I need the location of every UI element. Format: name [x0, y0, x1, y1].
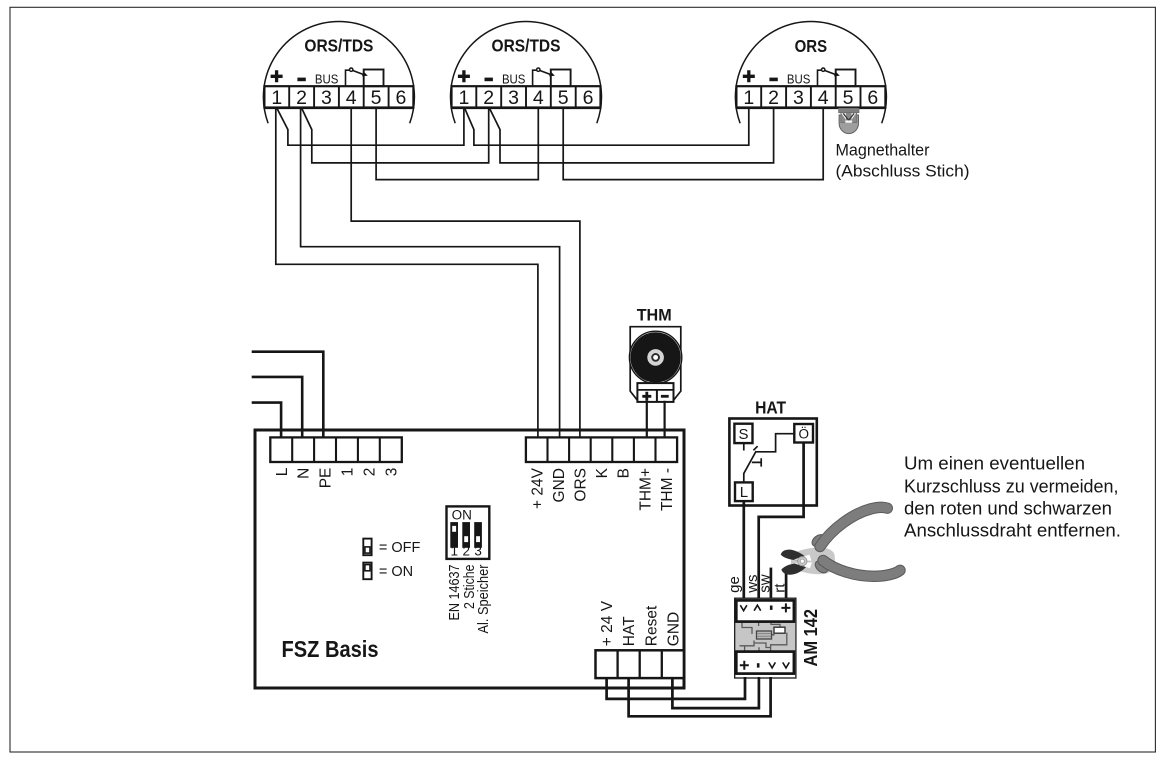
magnet holder (Magnethalter) on D3 pin 5	[839, 108, 859, 133]
svg-text:= ON: = ON	[379, 564, 413, 580]
svg-text:S: S	[738, 426, 748, 443]
svg-text:ORS: ORS	[573, 468, 590, 502]
svg-text:THM: THM	[637, 307, 672, 325]
svg-text:B: B	[616, 468, 633, 478]
wire: THM- to FSZ	[663, 401, 665, 438]
detector D3 ORS dome	[735, 21, 886, 123]
wire: HAT L to AM142 (ge)	[742, 501, 745, 598]
wire: HAT O to AM142 (ws)	[759, 443, 804, 599]
svg-text:4: 4	[818, 87, 829, 109]
detector D1 minus label	[297, 78, 305, 82]
wire: FSZ GND to AM142 -	[672, 677, 759, 708]
HAT terminal S	[734, 424, 752, 443]
FSZ mains terminal strip L N PE 1 2 3	[270, 437, 402, 488]
wire: mains feed to N	[252, 377, 303, 438]
wire: cut red lead (rt)	[785, 571, 788, 599]
FSZ detector terminal strip +24V GND ORS K B THM+ THM-	[526, 437, 677, 511]
side cutter pliers white cutting edges	[794, 555, 812, 561]
svg-text:L: L	[274, 467, 291, 476]
detector D1 alarm relay contact	[346, 68, 384, 86]
side cutter pliers lower handle	[813, 558, 900, 576]
side cutter pliers upper jaw	[781, 550, 806, 561]
wire: bus line A first span D1.1 to D2.1	[277, 108, 464, 146]
svg-text:6: 6	[867, 87, 878, 109]
svg-text:Um einen eventuellen: Um einen eventuellen	[904, 454, 1085, 474]
HAT terminal O (Oeffner)	[794, 424, 813, 443]
svg-text:6: 6	[395, 87, 406, 109]
svg-text:ORS: ORS	[795, 36, 828, 56]
detector D2 plus label	[458, 70, 470, 82]
detector D2 terminal strip pins 1-6	[451, 86, 601, 109]
AM 142 module body	[735, 598, 796, 678]
svg-text:4: 4	[533, 87, 544, 109]
svg-text:Reset: Reset	[643, 605, 660, 646]
svg-text:Al. Speicher: Al. Speicher	[475, 564, 492, 633]
svg-text:den roten und schwarzen: den roten und schwarzen	[904, 498, 1112, 518]
svg-text:Magnethalter: Magnethalter	[836, 140, 930, 159]
detector D2 alarm relay contact	[533, 68, 571, 86]
detector D2 ORS/TDS dome	[451, 21, 602, 123]
detector D2 minus label	[485, 78, 493, 82]
svg-text:3: 3	[793, 87, 804, 109]
svg-text:THM+: THM+	[637, 468, 654, 511]
svg-text:2: 2	[361, 468, 378, 477]
wire: relay chain D2.5 to D3.4	[563, 108, 823, 180]
AM 142 upper terminal row	[736, 600, 794, 621]
svg-text:FSZ Basis: FSZ Basis	[282, 636, 379, 662]
wire: D1.1 to FSZ +24V terminal	[276, 108, 538, 438]
wire: D1.2 to FSZ GND terminal	[301, 108, 560, 438]
DIP legend ON icon	[363, 563, 371, 580]
svg-text:5: 5	[371, 87, 382, 109]
svg-text:2: 2	[483, 87, 494, 109]
detector D3 alarm relay contact	[818, 68, 856, 86]
wire: FSZ +24V to AM142 +	[607, 677, 745, 699]
HAT enclosure box	[729, 419, 816, 506]
side cutter pliers lower jaw	[781, 563, 806, 575]
DIP legend OFF icon	[363, 539, 371, 556]
wire: mains feed to PE	[252, 352, 324, 438]
svg-text:ORS/TDS: ORS/TDS	[304, 35, 373, 55]
svg-text:HAT: HAT	[755, 397, 786, 417]
svg-text:Kurzschluss zu vermeiden,: Kurzschluss zu vermeiden,	[904, 476, 1119, 496]
wire: THM+ to FSZ	[646, 401, 648, 438]
wire: mains feed to L	[252, 403, 281, 438]
svg-text:GND: GND	[551, 468, 568, 502]
svg-text:PE: PE	[318, 468, 335, 489]
svg-text:5: 5	[558, 87, 569, 109]
wire: bus line B first span D1.2 to D2.2	[301, 108, 488, 163]
svg-text:ON: ON	[452, 508, 472, 523]
svg-text:4: 4	[346, 87, 357, 109]
wire: relay chain D1.5 to D2.4	[376, 108, 538, 180]
THM terminal box + -	[637, 383, 673, 402]
svg-text:GND: GND	[665, 612, 682, 646]
svg-text:AM 142: AM 142	[801, 609, 821, 667]
side cutter pliers upper handle	[810, 507, 887, 548]
svg-text:3: 3	[321, 87, 332, 109]
detector D3 minus label	[769, 78, 777, 82]
svg-text:rt: rt	[772, 583, 789, 593]
svg-text:1: 1	[458, 87, 469, 109]
wire: cut black lead (sw)	[770, 568, 773, 599]
svg-text:1: 1	[743, 87, 754, 109]
detector D3 terminal strip pins 1-6	[736, 86, 886, 109]
svg-text:6: 6	[583, 87, 594, 109]
wire: bus line B second span D2.2 to D3.2	[489, 108, 773, 163]
svg-text:1: 1	[450, 543, 458, 558]
wire: D1.4 to FSZ ORS terminal	[351, 108, 580, 438]
HAT terminal L	[735, 482, 753, 501]
side cutter pliers pivot	[798, 557, 807, 566]
svg-text:+ 24 V: + 24 V	[599, 600, 616, 646]
svg-text:3: 3	[383, 468, 400, 477]
svg-text:(Abschluss Stich): (Abschluss Stich)	[836, 162, 970, 181]
THM sounder body	[629, 327, 681, 402]
svg-text:N: N	[296, 468, 313, 479]
svg-text:1: 1	[271, 87, 282, 109]
svg-text:2: 2	[462, 543, 470, 558]
svg-text:5: 5	[843, 87, 854, 109]
DIP switch block S1	[447, 506, 490, 559]
wire: FSZ HAT to AM142	[629, 677, 771, 716]
AM 142 lower terminal row	[736, 652, 794, 674]
svg-text:= OFF: = OFF	[379, 540, 421, 556]
svg-text:Ö: Ö	[798, 426, 809, 441]
HAT changeover contact	[744, 434, 795, 483]
detector D1 terminal strip pins 1-6	[264, 86, 414, 109]
svg-text:L: L	[740, 484, 748, 501]
instruction text block	[904, 454, 1121, 541]
svg-text:3: 3	[508, 87, 519, 109]
svg-text:BUS: BUS	[315, 72, 339, 87]
svg-text:2: 2	[768, 87, 779, 109]
detector D1 ORS/TDS dome	[263, 21, 414, 123]
detector D1 plus label	[271, 70, 283, 82]
svg-text:HAT: HAT	[621, 616, 638, 646]
detector D3 plus label	[743, 70, 755, 82]
svg-text:2: 2	[296, 87, 307, 109]
svg-text:Anschlussdraht entfernen.: Anschlussdraht entfernen.	[904, 521, 1121, 541]
svg-text:3: 3	[474, 543, 482, 558]
svg-text:ORS/TDS: ORS/TDS	[492, 35, 561, 55]
svg-text:+ 24V: + 24V	[529, 467, 546, 509]
svg-text:1: 1	[340, 468, 357, 477]
svg-text:BUS: BUS	[787, 72, 811, 87]
side cutter pliers head	[791, 547, 836, 574]
svg-text:ge: ge	[726, 576, 743, 593]
wire: bus line A second span D2.1 to D3.1	[464, 108, 748, 146]
FSZ bottom terminal strip +24V HAT Reset GND	[596, 600, 684, 678]
svg-text:BUS: BUS	[502, 72, 526, 87]
FSZ Basis enclosure box	[255, 430, 684, 688]
svg-text:THM -: THM -	[659, 468, 676, 511]
svg-text:K: K	[594, 467, 611, 478]
